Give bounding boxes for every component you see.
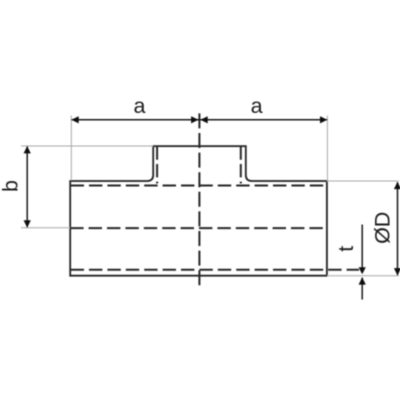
centerline horizontal (70, 227, 326, 229)
arrowhead a left (71, 116, 78, 123)
hidden line: branch inner wall right (240, 146, 242, 183)
arrowhead D top (394, 182, 400, 189)
svg-text:a: a (251, 94, 263, 118)
dimension line a (left+right spans) (71, 119, 327, 121)
extension line: vertical left end (for a) (70, 116, 72, 181)
arrowhead D bottom (394, 268, 400, 275)
arrowhead b bottom (24, 220, 31, 227)
arrowhead t down (359, 267, 366, 274)
svg-text:t: t (334, 246, 358, 252)
arrowhead a center-left (191, 116, 198, 123)
hidden line: branch inner wall left (156, 146, 158, 183)
dimension line t upper (361, 225, 363, 271)
arrowhead b top (24, 146, 31, 153)
dimension line b (26, 146, 28, 227)
dimension line D (397, 182, 399, 275)
svg-text:ØD: ØD (371, 212, 395, 244)
extension line: branch top level (for b) (21, 145, 153, 147)
arrowhead a right (320, 116, 327, 123)
extension line: tube top right (for D) (327, 180, 399, 182)
tee fitting outer contour (70, 146, 327, 276)
hidden line: top inner wall (71, 185, 327, 187)
hidden line: bottom inner wall (extends right as t extension) (71, 269, 359, 271)
centerline vertical (198, 113, 200, 287)
svg-text:a: a (134, 94, 146, 118)
extension line: centerline level left (for b) (21, 227, 70, 229)
extension line: tube bottom right (for D and t) (327, 275, 399, 277)
dimension line t lower (361, 278, 363, 300)
arrowhead t up (359, 277, 366, 284)
extension line: vertical right end (for a) (326, 116, 328, 181)
arrowhead a center-right (200, 116, 207, 123)
svg-text:b: b (0, 180, 23, 192)
